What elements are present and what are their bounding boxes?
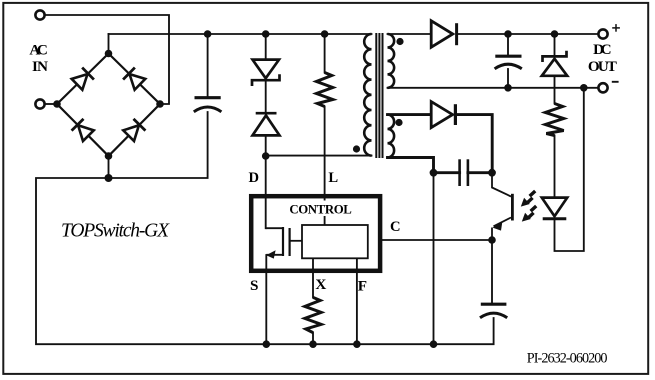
output capacitor C2	[495, 56, 522, 69]
wire bias winding to diode	[388, 115, 493, 173]
feedback resistor R2	[545, 104, 563, 136]
bridge diode lower-right	[123, 119, 146, 142]
line-sense resistor R1	[316, 73, 332, 107]
node F rail	[353, 340, 361, 348]
output rectifier diode D2	[431, 21, 456, 47]
transformer core	[376, 33, 382, 158]
node return junction	[105, 174, 113, 182]
bridge rectifier BR1 wires	[57, 54, 160, 157]
svg-text:DC: DC	[593, 41, 612, 58]
wire emitter node to control cap	[491, 240, 493, 303]
wire bias cap left lead	[434, 171, 460, 174]
wire zener to resistor	[554, 77, 556, 104]
wire bias cap right lead	[468, 171, 492, 174]
MOSFET inside U1	[266, 227, 302, 259]
wire AC bottom terminal to bridge left	[45, 103, 58, 105]
wire input cap top lead	[207, 34, 209, 97]
transformer T1 primary winding	[364, 34, 371, 156]
svg-text:C: C	[390, 219, 401, 235]
svg-text:TOPSwitch-GX: TOPSwitch-GX	[61, 221, 170, 242]
input bulk capacitor C1	[194, 98, 222, 112]
wire pin C to optocoupler emitter	[382, 239, 492, 241]
wire L resistor top lead	[324, 34, 326, 73]
optocoupler light arrows	[518, 189, 540, 225]
node bridge right	[156, 100, 164, 108]
wire clamp branch top	[265, 34, 267, 60]
svg-text:L: L	[328, 170, 338, 186]
svg-text:OUT: OUT	[588, 58, 617, 75]
X resistor R3	[305, 297, 321, 332]
control bypass capacitor C4	[480, 304, 507, 318]
wire pin X to resistor	[312, 258, 314, 297]
bridge diode upper-right	[123, 68, 146, 91]
node collector	[488, 169, 496, 177]
transformer bias winding	[388, 115, 395, 158]
node DC- cap	[504, 84, 512, 92]
transformer secondary winding	[388, 34, 395, 88]
bridge diode upper-left	[71, 68, 94, 91]
optocoupler phototransistor Q1	[492, 173, 512, 240]
svg-text:CONTROL: CONTROL	[289, 202, 352, 216]
bias rectifier diode D3	[431, 102, 455, 128]
AC input terminal top	[35, 10, 44, 19]
svg-text:F: F	[358, 277, 367, 294]
DC output terminal minus	[598, 83, 607, 92]
node bias return rail	[430, 340, 438, 348]
node DC+ zener	[551, 30, 559, 38]
node DC- feedback	[580, 84, 588, 92]
bridge diode lower-left	[72, 119, 95, 142]
wire HV rail	[109, 33, 372, 35]
svg-text:IN: IN	[32, 58, 48, 75]
wire pin S down	[265, 255, 267, 344]
wire bottom return left	[36, 112, 494, 344]
node rail clamp	[262, 30, 270, 38]
plus sign	[612, 24, 620, 32]
node X rail	[309, 340, 317, 348]
svg-text:AC: AC	[29, 41, 48, 58]
wire resistor to LED	[554, 136, 556, 198]
wire X resistor bottom lead	[312, 333, 314, 345]
wire LED return to DC-	[555, 88, 584, 251]
wire bridge top to HV rail	[108, 34, 110, 54]
clamp blocking diode D1	[253, 113, 280, 135]
node bias cap tap	[430, 169, 438, 177]
wire diode to node D	[265, 136, 267, 229]
wire feedback zener top	[554, 34, 556, 56]
control inner box	[302, 225, 368, 258]
wire AC top terminal to bridge right	[45, 15, 169, 104]
node D	[262, 152, 270, 160]
clamp zener VR1	[252, 60, 280, 86]
wire output diode to DC+	[457, 33, 599, 35]
wire zener to diode	[265, 81, 267, 113]
primary polarity dot	[353, 145, 360, 152]
wire bias winding return	[388, 158, 434, 174]
node bridge bottom	[105, 152, 113, 160]
minus sign	[612, 81, 619, 83]
bias bypass capacitor C3	[460, 159, 468, 186]
svg-text:X: X	[315, 276, 326, 293]
wire primary bottom lead	[266, 155, 372, 157]
wire output cap top lead	[507, 34, 509, 55]
svg-text:D: D	[249, 170, 260, 186]
AC input terminal bottom	[35, 99, 44, 108]
node emitter C	[488, 236, 496, 244]
node bridge left	[53, 100, 61, 108]
bias polarity dot	[395, 119, 402, 126]
wire bias return lower	[433, 173, 435, 345]
wire DC- rail	[388, 87, 599, 89]
svg-text:S: S	[250, 277, 258, 294]
wire secondary top lead	[388, 33, 431, 35]
wire output cap bottom lead	[507, 69, 509, 88]
node rail L resistor	[321, 30, 329, 38]
TOPSwitch-GX U1 control block outline	[251, 196, 380, 271]
node rail cap	[204, 30, 212, 38]
svg-text:PI-2632-060200: PI-2632-060200	[527, 351, 608, 367]
wire pin F down	[356, 258, 358, 344]
optocoupler LED	[542, 198, 567, 219]
label CONTROL	[287, 201, 355, 217]
wire L line down	[324, 107, 326, 226]
feedback zener VR2	[542, 51, 567, 76]
wire bridge bottom down	[108, 156, 110, 178]
secondary polarity dot	[396, 38, 403, 45]
node bridge top	[105, 50, 113, 58]
node S rail	[263, 340, 271, 348]
node DC+ cap	[504, 30, 512, 38]
wire bias diode to collector node	[455, 115, 492, 171]
DC output terminal plus	[598, 29, 607, 38]
